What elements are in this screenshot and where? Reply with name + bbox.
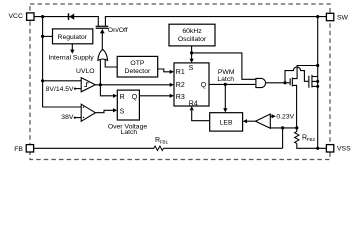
svg-text:VCC: VCC	[9, 13, 23, 20]
svg-text:UVLO: UVLO	[76, 68, 95, 75]
svg-text:Q: Q	[132, 94, 138, 101]
svg-text:R: R	[120, 94, 125, 101]
svg-text:Internal Supply: Internal Supply	[48, 55, 94, 62]
svg-text:Oscillator: Oscillator	[178, 36, 207, 43]
svg-text:R3: R3	[176, 94, 185, 101]
svg-text:R1: R1	[176, 69, 185, 76]
svg-text:0.23V: 0.23V	[276, 113, 294, 120]
svg-text:38V: 38V	[61, 114, 74, 121]
svg-text:8V/14.5V: 8V/14.5V	[46, 86, 74, 93]
svg-text:SW: SW	[337, 15, 349, 22]
svg-text:R4: R4	[189, 100, 198, 107]
svg-text:Regulator: Regulator	[58, 34, 88, 41]
svg-text:FB: FB	[14, 146, 23, 153]
svg-text:On/Off: On/Off	[108, 27, 128, 34]
svg-text:Detector: Detector	[125, 68, 151, 75]
svg-text:S: S	[189, 65, 194, 72]
svg-text:60kHz: 60kHz	[182, 28, 202, 35]
svg-text:Latch: Latch	[217, 76, 234, 83]
svg-text:VSS: VSS	[337, 146, 351, 153]
svg-text:FB1: FB1	[160, 140, 169, 145]
svg-text:OTP: OTP	[130, 60, 144, 67]
svg-text:R2: R2	[176, 82, 185, 89]
svg-text:Q: Q	[201, 82, 207, 89]
svg-text:LEB: LEB	[220, 119, 233, 126]
svg-text:FB2: FB2	[307, 137, 316, 142]
svg-text:S: S	[120, 109, 125, 116]
svg-text:Latch: Latch	[121, 129, 138, 136]
